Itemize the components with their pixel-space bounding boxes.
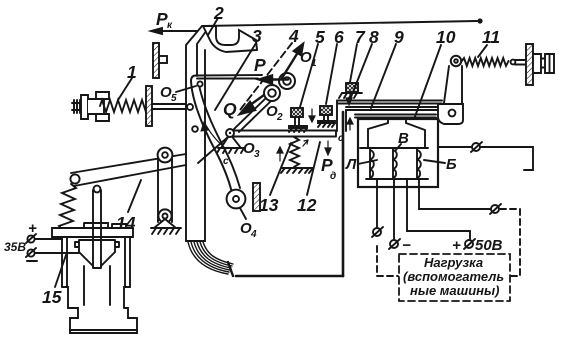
relay core bottom	[366, 178, 428, 180]
label 14	[116, 213, 136, 233]
coil Б (right)	[417, 148, 421, 178]
rod from seat to column	[153, 104, 186, 109]
relay frame	[358, 119, 438, 187]
label 13	[259, 195, 279, 215]
nut blocks	[533, 54, 541, 73]
rod top pivot	[94, 186, 101, 193]
wall: spring seat plate hatched	[146, 86, 152, 126]
svg-text:Q: Q	[223, 99, 237, 119]
wall: upper-left hatched support	[153, 43, 167, 78]
leader 15	[55, 255, 66, 287]
leader for 2	[208, 18, 218, 35]
dashed wire from w1 to load box	[377, 246, 398, 276]
contact upper fixed	[339, 83, 362, 105]
armature plate over relay	[355, 115, 436, 118]
label 12	[297, 195, 317, 215]
lever 3: curved plate	[196, 75, 262, 79]
valve base	[68, 308, 137, 330]
bracket 2: cam hook on column top	[203, 26, 257, 52]
column: main housing body	[186, 26, 205, 241]
arrow down Pd	[325, 141, 331, 155]
wire w2 from coil B down	[393, 179, 395, 239]
pivot O2	[264, 85, 280, 101]
wall: right hatched support	[526, 44, 533, 85]
label 2	[213, 3, 224, 23]
label 35V	[4, 240, 26, 254]
svg-text:11: 11	[482, 27, 500, 47]
terminal minus lower	[27, 260, 37, 262]
node: ball end of top link	[477, 18, 482, 23]
link arm from O2 to O3	[234, 98, 271, 132]
wire: bottom horizontal	[236, 275, 343, 278]
line from O3 down-left	[198, 137, 228, 163]
relay top funnel yoke	[368, 118, 425, 148]
force arrow P	[259, 76, 288, 84]
leader 8	[351, 44, 372, 97]
leader 6	[326, 44, 337, 104]
flexible cable at column bottom	[188, 242, 233, 274]
bell crank lever 10	[438, 56, 463, 124]
spring 1 coil	[100, 100, 149, 112]
label O4	[240, 220, 257, 240]
component 1: adjusting screw and clevis	[72, 92, 109, 121]
valve lower step	[62, 287, 130, 308]
label Pd	[321, 155, 336, 182]
leader 4 (dashed)	[240, 43, 292, 110]
valve spool	[75, 240, 119, 252]
label O1	[300, 49, 317, 69]
svg-text:д: д	[330, 171, 336, 182]
terminal plus upper	[28, 220, 37, 237]
svg-text:12: 12	[297, 195, 317, 215]
svg-text:−: −	[402, 237, 411, 254]
arrow up to bar	[347, 118, 353, 130]
rod collar	[84, 223, 126, 228]
svg-text:6: 6	[334, 27, 344, 47]
coil B (middle)	[393, 148, 397, 178]
leader O4	[240, 208, 246, 219]
valve body walls	[62, 237, 130, 287]
leader 9	[371, 44, 396, 108]
svg-text:5: 5	[315, 27, 325, 47]
label Q	[223, 99, 237, 119]
terminal relay right	[471, 142, 482, 152]
wire: to hook end	[480, 147, 533, 170]
wire w1 from coil A down	[376, 179, 378, 227]
ground under spring 13	[281, 168, 313, 173]
wire w4 right	[419, 179, 490, 209]
svg-text:4: 4	[288, 26, 299, 46]
svg-text:Б: Б	[446, 156, 457, 173]
wire: thick vertical from bar to bottom	[342, 112, 345, 276]
pivot top of link	[158, 148, 173, 163]
svg-text:P: P	[254, 55, 266, 75]
label O3	[243, 140, 260, 160]
label P	[254, 55, 266, 75]
svg-text:10: 10	[436, 27, 456, 47]
leader 7	[350, 44, 357, 82]
terminal w1	[372, 227, 383, 237]
leader 3	[215, 43, 256, 110]
force arrow up-right from O1	[282, 44, 303, 78]
arrow up near spring	[277, 147, 283, 161]
wire to valve 2	[35, 252, 79, 254]
label B	[398, 130, 409, 147]
terminal circle 2	[26, 248, 36, 257]
force arrow Q	[240, 95, 264, 114]
terminal w4	[490, 204, 501, 214]
pivot bottom of link	[158, 209, 171, 222]
svg-text:2: 2	[276, 112, 283, 123]
terminal minus	[389, 239, 400, 249]
svg-text:+: +	[452, 237, 461, 254]
leader for 1	[118, 78, 132, 100]
link support vertical	[158, 156, 172, 222]
node: lower hole on column	[192, 126, 198, 132]
svg-text:15: 15	[42, 287, 62, 307]
load box text	[403, 255, 504, 298]
svg-text:ные машины): ные машины)	[410, 283, 499, 298]
angle mark c at O3	[205, 124, 224, 147]
spring of lever 14	[59, 184, 76, 229]
svg-text:3: 3	[254, 149, 260, 160]
relay core	[360, 147, 428, 149]
label 15	[42, 287, 62, 307]
contact pair middle	[318, 106, 335, 127]
load box dashed	[399, 254, 510, 301]
leader 12	[307, 142, 320, 195]
valve plunger rod	[93, 190, 101, 268]
leader 10	[413, 45, 441, 122]
node O5 hole on plate	[197, 81, 202, 86]
svg-text:(вспомогатель: (вспомогатель	[403, 269, 504, 284]
label O2	[266, 103, 283, 123]
wall right of O4	[253, 183, 260, 211]
pivot O1	[279, 73, 295, 89]
leader O5	[176, 86, 196, 92]
terminal circle 1	[26, 234, 36, 243]
svg-text:5: 5	[171, 93, 177, 104]
svg-text:Л: Л	[345, 156, 357, 173]
label Б	[446, 156, 457, 173]
arrow down at middle contact	[309, 109, 315, 122]
leader 11	[478, 45, 487, 57]
adjusting rod of spring 11	[515, 60, 533, 65]
leader B	[395, 144, 401, 151]
node: rod pin hole	[187, 104, 193, 110]
upper bar to relay	[337, 101, 442, 111]
roller O4	[227, 190, 246, 209]
wire w3 to +50V	[407, 179, 470, 239]
svg-text:3: 3	[252, 26, 262, 46]
valve 15 top plate	[52, 228, 133, 237]
label 1	[127, 62, 137, 82]
label O5	[160, 84, 177, 104]
column inner edge line	[197, 27, 209, 76]
spring 13	[290, 137, 299, 167]
svg-text:8: 8	[369, 27, 379, 47]
label Pk force	[156, 9, 173, 31]
gap mark at bar	[303, 140, 308, 146]
terminal +50V	[464, 239, 475, 249]
cable end tick	[228, 262, 233, 276]
leader Л	[358, 160, 377, 164]
label A (Л)	[345, 156, 357, 173]
arrow Pk pointing left	[151, 28, 197, 34]
svg-text:Нагрузка: Нагрузка	[424, 255, 483, 270]
ground triangle under link	[154, 219, 176, 228]
spring 11	[461, 58, 508, 66]
leader 14	[128, 180, 141, 212]
svg-text:13: 13	[259, 195, 279, 215]
wire: relay right output	[438, 146, 472, 148]
valve funnel	[79, 252, 115, 305]
wire: long top link line	[203, 21, 477, 26]
eye at spring 11 end	[511, 60, 516, 65]
svg-text:2: 2	[213, 3, 224, 23]
coil A (left)	[370, 148, 374, 178]
leader Б	[424, 160, 445, 163]
contact pair left	[289, 108, 307, 132]
svg-text:к: к	[167, 20, 173, 31]
pivot O3 with support	[217, 129, 245, 153]
svg-text:4: 4	[250, 229, 257, 240]
label c2	[338, 133, 344, 144]
wire to valve	[35, 238, 62, 240]
leader 5	[300, 44, 318, 107]
svg-text:c: c	[223, 156, 229, 167]
svg-text:50В: 50В	[475, 237, 503, 254]
lever 14	[71, 154, 186, 186]
dashed wire from w4 to load box	[500, 209, 520, 276]
svg-text:35В: 35В	[4, 240, 26, 254]
step of bar up	[337, 101, 346, 132]
labels 3-11 with leaders	[252, 26, 500, 47]
bar 12: armature lever from O3	[233, 131, 336, 137]
pivot at lever 14 left	[70, 174, 79, 183]
leader 13	[270, 143, 291, 195]
